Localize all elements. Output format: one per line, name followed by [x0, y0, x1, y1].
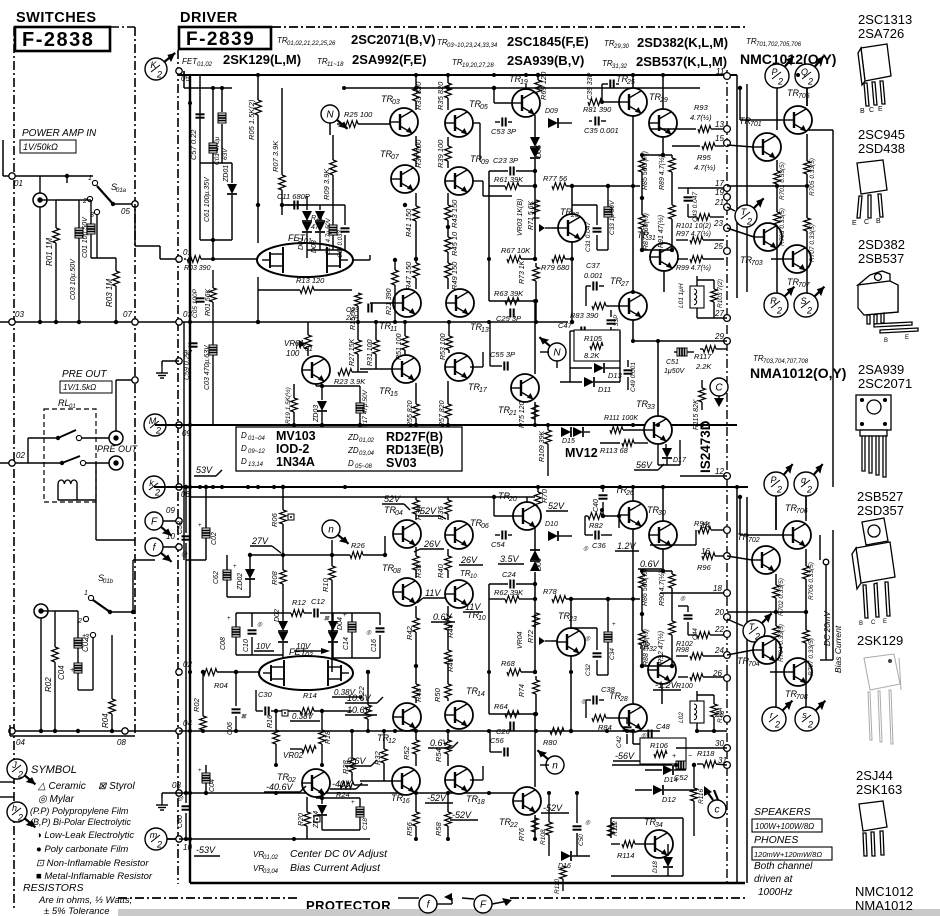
svg-text:R64: R64: [494, 702, 508, 711]
svg-text:2: 2: [156, 70, 162, 80]
svg-text:-52V: -52V: [452, 810, 472, 820]
transistor TR26: [619, 501, 647, 529]
resistor R43 150: [447, 193, 449, 205]
svg-text:R97 4.7(½): R97 4.7(½): [676, 230, 711, 238]
svg-text:D15: D15: [562, 438, 575, 445]
relay RL01 box: [44, 409, 96, 502]
resistor R706 col: [803, 566, 810, 579]
zener ZD03: [321, 386, 323, 400]
node 07: [176, 358, 182, 364]
capacitor C05 100P: [196, 297, 205, 299]
node 26: [724, 675, 731, 682]
connector r/2: [762, 701, 792, 731]
resistor R07 3.9K: [281, 88, 283, 175]
bus second rail: [344, 87, 700, 89]
resistor R102 lower: [697, 632, 710, 639]
svg-text:29,30: 29,30: [613, 44, 630, 50]
svg-text:R02: R02: [192, 697, 201, 712]
wire R73 bottom: [535, 301, 537, 322]
svg-text:R21 390: R21 390: [386, 288, 393, 315]
wire fet02 cluster rails: [333, 612, 380, 614]
svg-text:2SC2071(B,V): 2SC2071(B,V): [351, 32, 436, 47]
node 10: [176, 836, 182, 842]
wire TR24 base: [552, 640, 557, 642]
transistor TR03: [390, 108, 418, 136]
wire 17 19 21 rows: [678, 187, 688, 189]
jack input RCA: [33, 193, 47, 207]
svg-text:-1.2V: -1.2V: [655, 680, 678, 690]
resistor R101 10(2): [697, 214, 710, 221]
package 2SC945: [857, 160, 887, 218]
svg-text:2SD438: 2SD438: [858, 141, 905, 156]
svg-text:R705 0.33(5): R705 0.33(5): [809, 158, 816, 196]
svg-text:R06: R06: [270, 512, 279, 527]
capacitor C49 0.001: [624, 369, 633, 371]
capacitor C56 3P: [503, 748, 505, 757]
connector R/2: [764, 287, 794, 317]
resistor R48: [415, 676, 417, 684]
wire VR04 col: [534, 609, 536, 673]
svg-text:VR02: VR02: [283, 751, 304, 760]
svg-text:R03 390: R03 390: [184, 265, 211, 272]
wire TR07 collector: [404, 193, 406, 205]
resistor R88 lower: [639, 631, 646, 645]
resistor R85 560(1/2): [641, 155, 643, 158]
node 15: [724, 140, 731, 147]
svg-text:R57 820: R57 820: [439, 400, 446, 427]
node 19: [724, 194, 731, 201]
connector f bottom: [419, 895, 437, 913]
transistor TR13: [446, 289, 474, 317]
resistor R91 47(1/2): [671, 190, 673, 205]
transistor TR10: [445, 580, 473, 608]
svg-text:ZD: ZD: [347, 433, 359, 442]
svg-text:NMA1012(O,Y): NMA1012(O,Y): [750, 365, 846, 381]
resistor R113 68: [600, 442, 620, 444]
diode D10: [548, 531, 558, 541]
svg-text:11~18: 11~18: [327, 62, 344, 68]
svg-text:2: 2: [806, 485, 812, 495]
wire TR21 collector: [534, 301, 536, 374]
wire TR708 emitter: [805, 686, 807, 707]
wire TR13 base: [430, 302, 446, 304]
resistor R116 lower: [691, 788, 698, 801]
svg-text:2SD357: 2SD357: [857, 503, 904, 518]
svg-text:28: 28: [619, 696, 628, 703]
resistor R58: [447, 794, 449, 812]
svg-text:10.6V: 10.6V: [347, 693, 372, 703]
wire TR19 base: [494, 102, 512, 104]
svg-text:R110: R110: [554, 879, 561, 894]
wire TR25 base: [602, 101, 619, 103]
svg-text:RD13E(B): RD13E(B): [386, 443, 444, 457]
svg-text:D03: D03: [311, 240, 318, 253]
transistor TR708: [784, 658, 812, 686]
wire TR12 TR14 bases: [384, 716, 393, 718]
svg-text:R07 3.9K: R07 3.9K: [271, 140, 280, 172]
wire TR22 base: [510, 752, 511, 801]
svg-text:C12: C12: [311, 597, 326, 606]
transistor TR25: [619, 88, 647, 116]
wire fet loop: [257, 243, 259, 277]
capacitor C16: [376, 627, 385, 629]
svg-text:30: 30: [658, 510, 666, 517]
wire TR20 collector: [526, 497, 528, 502]
resistor R38: [415, 547, 417, 556]
resistor R14 lower: [300, 708, 314, 715]
wire TR708 base: [770, 671, 784, 673]
bus heavy vertical: [189, 75, 191, 883]
diode D13: [570, 367, 592, 369]
svg-text:R69 120: R69 120: [539, 71, 548, 100]
diode D02 pair: [278, 621, 288, 631]
svg-text:D12: D12: [662, 795, 677, 804]
svg-text:22: 22: [714, 625, 724, 634]
svg-text:C17 47μ.50V: C17 47μ.50V: [362, 389, 369, 428]
svg-text:R02: R02: [44, 677, 53, 692]
svg-text:52V: 52V: [384, 494, 401, 504]
svg-text:C15 0.033: C15 0.033: [338, 230, 344, 258]
capacitor C01 10u50V: [90, 200, 92, 224]
resistor R110: [560, 866, 567, 879]
resistor R78: [535, 598, 546, 600]
wire zd03 row: [315, 384, 317, 386]
svg-text:B: B: [860, 108, 865, 115]
transistor TR20: [513, 502, 541, 530]
wire R86 mid: [641, 606, 643, 631]
wire TR702 base: [727, 556, 752, 560]
svg-text:C16: C16: [371, 639, 378, 652]
node 09: [176, 422, 182, 428]
svg-text:0.6V: 0.6V: [433, 612, 453, 622]
connector h/2: [7, 802, 35, 827]
svg-text:C30: C30: [258, 690, 273, 699]
resistor R67 10K: [395, 258, 505, 260]
capacitor C12: [313, 609, 315, 618]
svg-text:0.38V: 0.38V: [292, 712, 314, 721]
node 21: [724, 204, 731, 211]
node 11: [724, 73, 731, 80]
wire R41 to R47: [415, 232, 417, 263]
transistor TR01: [302, 356, 330, 384]
node 13: [724, 126, 731, 133]
svg-text:D: D: [241, 444, 247, 453]
bus 02 row left: [0, 462, 62, 464]
capacitor C54 3P: [501, 531, 503, 540]
capacitor C23 3P: [509, 167, 511, 176]
svg-text:B: B: [884, 338, 888, 344]
resistor R71 5.6K: [533, 217, 540, 219]
svg-text:C48: C48: [656, 722, 671, 731]
capacitor C10: [248, 629, 257, 631]
transistor TR02: [302, 769, 330, 797]
svg-text:PRE OUT: PRE OUT: [62, 369, 107, 380]
svg-text:C26: C26: [496, 727, 511, 736]
svg-text:R74: R74: [519, 684, 526, 697]
svg-text:R118: R118: [697, 749, 715, 758]
wire TR27 emitter: [632, 320, 634, 341]
svg-text:R41 150: R41 150: [404, 208, 413, 237]
svg-text:C42: C42: [616, 736, 623, 748]
resistor R70: [537, 487, 539, 492]
resistor R75 120: [532, 405, 539, 419]
svg-text:C02: C02: [211, 532, 218, 545]
svg-text:15: 15: [715, 134, 724, 143]
transistor TR34: [645, 830, 673, 858]
capacitor C30: [264, 707, 266, 716]
svg-text:R94: R94: [694, 519, 708, 528]
package 2SD382: [858, 271, 918, 333]
svg-text:01b: 01b: [103, 579, 114, 585]
wire C24 left: [488, 584, 490, 714]
resistor R02 switches: [54, 611, 56, 647]
connector P/2 lower: [764, 464, 793, 496]
svg-text:13,14: 13,14: [248, 462, 264, 468]
wire r cols join lower: [642, 570, 672, 572]
svg-text:C50: C50: [578, 834, 585, 846]
svg-text:R04: R04: [101, 713, 110, 728]
node 09b: [176, 518, 182, 524]
svg-text:2: 2: [777, 77, 783, 87]
wire lower top rail: [190, 496, 535, 498]
capacitor C03 10u50V: [78, 200, 80, 228]
svg-text:27V: 27V: [251, 536, 269, 546]
svg-text:27: 27: [714, 309, 724, 318]
svg-text:R54: R54: [434, 748, 443, 762]
svg-text:R704 0.33(5): R704 0.33(5): [778, 624, 785, 662]
svg-text:R81 390: R81 390: [583, 105, 612, 114]
svg-text:F: F: [151, 517, 158, 528]
wire D06 junction: [534, 581, 536, 609]
svg-text:R56: R56: [405, 821, 414, 836]
svg-text:0.6V: 0.6V: [640, 559, 660, 569]
wire FET01 gate right: [353, 259, 370, 261]
svg-text:VR01: VR01: [284, 339, 304, 348]
wire R64 C26 row: [489, 713, 536, 715]
capacitor C47 0.001: [580, 327, 582, 336]
svg-text:POWER AMP IN: POWER AMP IN: [22, 128, 97, 139]
svg-text:SV03: SV03: [386, 456, 417, 470]
capacitor C58: [182, 535, 191, 537]
wire snubber: [569, 331, 571, 382]
wire TR05 collector loop: [458, 137, 460, 146]
wire TR20 base: [494, 515, 513, 517]
svg-text:IS2473D: IS2473D: [698, 420, 713, 473]
svg-text:R40: R40: [436, 563, 445, 578]
svg-text:18: 18: [477, 799, 485, 806]
svg-text:C: C: [864, 219, 869, 226]
svg-text:R20: R20: [298, 813, 305, 826]
svg-text:10: 10: [470, 574, 477, 580]
wire TR705 base: [740, 119, 783, 121]
resistor R64: [505, 711, 519, 718]
svg-text:R702 0.33(5): R702 0.33(5): [778, 578, 785, 616]
svg-text:R115 82K: R115 82K: [693, 399, 700, 430]
resistor R83 390: [592, 303, 606, 310]
svg-text:D06: D06: [536, 558, 543, 571]
resistor R55 820: [413, 404, 420, 418]
transistor TR21: [511, 374, 539, 402]
diode D06 pair: [530, 550, 540, 560]
resistor R702 col: [773, 585, 780, 598]
svg-text:120mW+120mW/8Ω: 120mW+120mW/8Ω: [754, 850, 822, 859]
wire TR34 em: [658, 858, 660, 862]
wire bias tap col: [819, 535, 821, 560]
wire to node 02: [27, 438, 29, 463]
wire TR32 down: [661, 684, 663, 704]
svg-text:-40.6V: -40.6V: [266, 782, 294, 792]
wire d-cluster top: [282, 204, 345, 206]
wire input 01 row: [3, 175, 93, 177]
svg-text:705: 705: [798, 93, 810, 100]
diode D14: [645, 769, 662, 771]
capacitor C59 0.22: [189, 340, 191, 355]
svg-text:2: 2: [17, 813, 23, 823]
svg-text:DRIVER: DRIVER: [180, 10, 238, 26]
svg-text:8.2K: 8.2K: [584, 351, 600, 360]
svg-text:E: E: [852, 220, 857, 227]
svg-text:+: +: [612, 622, 616, 628]
svg-text:19,20,27,28: 19,20,27,28: [462, 63, 494, 69]
transistor TR702: [752, 546, 780, 574]
svg-text:100: 100: [286, 349, 300, 358]
wire output rail right: [832, 130, 834, 487]
node 18: [724, 590, 731, 597]
svg-text:2SA939(B,V): 2SA939(B,V): [507, 53, 584, 68]
svg-text:05: 05: [121, 207, 130, 216]
resistor R62: [489, 598, 505, 600]
svg-text:R82: R82: [589, 521, 604, 530]
resistor R20: [304, 812, 311, 826]
wire TR33 collector: [657, 341, 659, 416]
resistor R40: [447, 549, 449, 556]
svg-text:R114: R114: [617, 851, 634, 860]
svg-text:c: c: [715, 805, 720, 816]
ground 07: [162, 360, 179, 362]
svg-text:R108: R108: [540, 829, 547, 845]
svg-text:D10: D10: [545, 521, 558, 528]
svg-text:R84: R84: [598, 723, 612, 732]
svg-text:03,04: 03,04: [359, 451, 375, 457]
wire TR19 emitter: [534, 115, 536, 137]
resistor R115 82K: [699, 388, 706, 402]
svg-text:23: 23: [568, 616, 577, 623]
svg-text:2SC1313: 2SC1313: [858, 12, 912, 27]
resistor R31 100: [373, 340, 380, 354]
svg-text:R96: R96: [697, 563, 712, 572]
resistor R100 lower: [678, 676, 688, 678]
transistor TR24: [557, 628, 585, 656]
resistor R49 150: [447, 258, 449, 263]
VR04: [533, 613, 540, 627]
node 17: [724, 185, 731, 192]
relay coil RL01: [58, 480, 77, 484]
svg-text:DC 20mV: DC 20mV: [823, 611, 832, 646]
connector k/2: [143, 476, 165, 498]
wire TR701 base: [727, 145, 753, 147]
svg-text:2SK163: 2SK163: [856, 782, 902, 797]
wire TR31 base: [640, 256, 648, 258]
svg-text:C29: C29: [346, 307, 359, 314]
svg-text:C03 470μ.63V: C03 470μ.63V: [204, 344, 211, 390]
svg-text:C05 100P: C05 100P: [192, 288, 199, 318]
svg-text:N: N: [326, 110, 334, 121]
svg-text:10V: 10V: [296, 642, 311, 651]
node 14: [724, 527, 731, 534]
svg-text:1μ50V: 1μ50V: [664, 368, 686, 375]
svg-text:R68: R68: [501, 659, 516, 668]
node 20: [724, 614, 731, 621]
svg-text:◎: ◎: [257, 622, 263, 628]
connector S/2: [794, 287, 824, 317]
package 2SB527: [852, 518, 895, 618]
resistor R99 4.7(1/2): [678, 258, 688, 260]
svg-text:R12: R12: [292, 598, 307, 607]
svg-text:23: 23: [713, 219, 723, 228]
svg-text:11: 11: [716, 67, 724, 76]
svg-text:R100: R100: [676, 683, 693, 690]
node 01: [176, 256, 182, 262]
svg-text:707: 707: [798, 282, 811, 289]
svg-text:Both channel: Both channel: [754, 861, 813, 872]
wire TR30 vert: [662, 487, 664, 521]
wire output rail A upper: [736, 75, 738, 298]
svg-text:32: 32: [649, 646, 657, 653]
VR01 100: [305, 335, 312, 349]
resistor R41 150: [415, 193, 417, 206]
svg-text:C38: C38: [601, 685, 616, 694]
wire TR23 collector: [571, 186, 573, 214]
capacitor C42: [623, 726, 632, 728]
resistor R74: [535, 676, 537, 680]
wire TR20 emitter: [534, 528, 536, 550]
svg-text:15: 15: [390, 391, 398, 398]
wire TR29 vert: [662, 75, 664, 109]
svg-text:C56: C56: [490, 736, 505, 745]
svg-text:◎: ◎: [583, 546, 589, 552]
resistor R36: [447, 497, 449, 500]
connector m/2: [145, 828, 167, 850]
resistor R61 39K: [489, 185, 505, 187]
svg-text:C40: C40: [593, 499, 600, 512]
wire TR22 emitter: [534, 815, 536, 839]
diode D01 D03 pair: [306, 196, 308, 210]
svg-text:R62 39K: R62 39K: [494, 588, 524, 597]
svg-text:R37 100: R37 100: [414, 139, 423, 168]
svg-text:-53V: -53V: [196, 845, 216, 855]
svg-text:Are in ohms, ⅓ Watts,: Are in ohms, ⅓ Watts,: [38, 895, 132, 906]
zener ZD01: [231, 163, 233, 183]
wire C51 col: [673, 341, 675, 352]
diode D12: [635, 789, 652, 791]
VR03 1K(B): [533, 200, 540, 214]
svg-text:2SC945: 2SC945: [858, 127, 905, 142]
svg-text:RD27F(B): RD27F(B): [386, 430, 443, 444]
node 31: [724, 762, 731, 769]
inductor L02: [690, 701, 704, 723]
svg-text:06: 06: [481, 523, 489, 530]
svg-text:R99 4.7(½): R99 4.7(½): [676, 264, 711, 272]
svg-text:C54: C54: [491, 540, 505, 549]
zener ZD02: [245, 569, 255, 579]
svg-text:09: 09: [166, 506, 175, 515]
svg-text:C57 0.22: C57 0.22: [189, 129, 198, 160]
svg-text:F: F: [480, 900, 487, 911]
svg-text:1N34A: 1N34A: [276, 455, 315, 469]
svg-text:R67 10K: R67 10K: [501, 246, 531, 255]
wire 28 row: [633, 743, 727, 745]
wire TR01 emitter: [294, 380, 310, 384]
